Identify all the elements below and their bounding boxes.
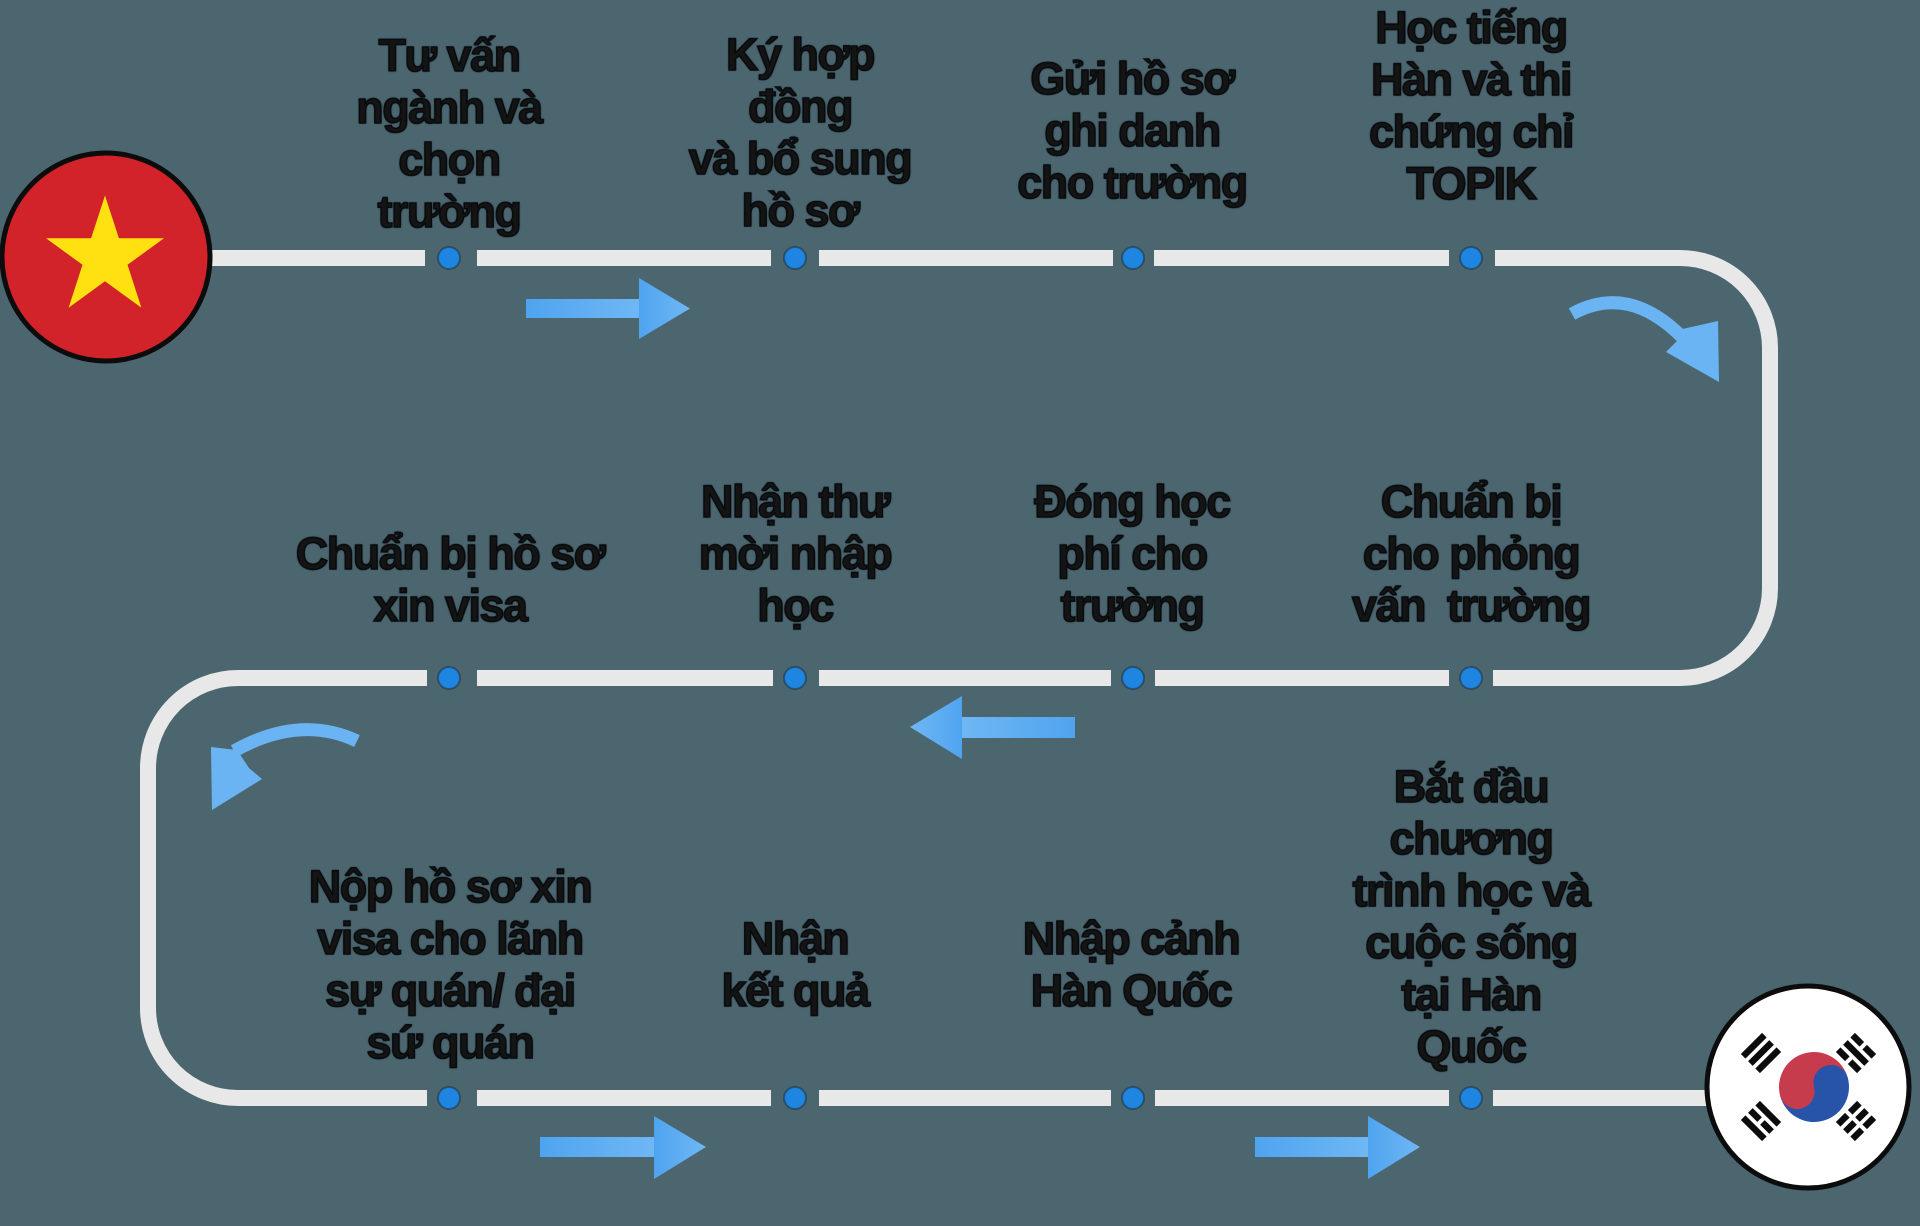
- node dot row3 col4: [1460, 1087, 1482, 1109]
- wire row2 segment B: [477, 670, 773, 686]
- label step 11: Nhap canh Han Quoc: [901, 913, 1361, 1017]
- wire row1 segment C: [819, 250, 1113, 266]
- label step 10: Nhan ket qua: [565, 913, 1025, 1017]
- wire row3 segment E to Korea flag: [1493, 1090, 1707, 1106]
- wire row2 segment D: [1155, 670, 1449, 686]
- trigram Gam (top-right, split solid split): [1836, 1033, 1876, 1073]
- label step 9: Nop ho so xin visa cho lanh su quan/ dai su quan: [220, 861, 680, 1069]
- label step 2: Ky hop dong va bo sung ho so: [570, 29, 1030, 237]
- straight arrow row3 right B: [1255, 1116, 1420, 1179]
- node dot row1 col3: [1122, 247, 1144, 269]
- node dot row1 col4: [1460, 247, 1482, 269]
- wire row1 segment D: [1154, 250, 1449, 266]
- label step 8: Chuan bi ho so xin visa: [220, 528, 680, 632]
- wire row3 segment C: [819, 1090, 1111, 1106]
- trigram Gon (bottom-right, 3 split): [1836, 1101, 1876, 1141]
- label step 6: Dong hoc phi cho truong: [902, 476, 1362, 632]
- node dot row3 col2: [784, 1087, 806, 1109]
- wire right U-curve row1 to row2: [1493, 258, 1770, 678]
- node dot row3 col1: [438, 1087, 460, 1109]
- node dot row3 col3: [1122, 1087, 1144, 1109]
- flag Vietnam (start node): [2, 153, 210, 361]
- trigram Geon (top-left, 3 solid): [1741, 1033, 1781, 1073]
- trigram Ri (bottom-left, solid split solid): [1741, 1101, 1781, 1141]
- node dot row2 col3: [1122, 667, 1144, 689]
- straight arrow row1 right: [526, 278, 690, 339]
- label step 1: Tu van nganh va chon truong: [219, 30, 679, 238]
- label step 12: Bat dau chuong trinh hoc va cuoc song tai Han Quoc: [1241, 761, 1701, 1073]
- node dot row1 col1: [438, 247, 460, 269]
- node dot row1 col2: [784, 247, 806, 269]
- label step 7: Nhan thu moi nhap hoc: [565, 476, 1025, 632]
- node dot row2 col1: [438, 667, 460, 689]
- wire row2 segment C: [819, 670, 1111, 686]
- wire row1 segment A: [211, 250, 425, 266]
- taegeuk: [1771, 1044, 1857, 1130]
- wire row1 segment B: [477, 250, 771, 266]
- flag South Korea (end node): [1707, 986, 1909, 1188]
- label step 3: Gui ho so ghi danh cho truong: [902, 53, 1362, 209]
- node dot row2 col4: [1460, 667, 1482, 689]
- label step 5: Chuan bi cho phong van truong: [1241, 476, 1701, 632]
- curved swoosh arrow left-middle: [211, 730, 357, 810]
- label step 4: Hoc tieng Han va thi chung chi TOPIK: [1241, 2, 1701, 210]
- wire row3 segment B: [477, 1090, 771, 1106]
- straight arrow row2 left: [910, 696, 1075, 759]
- node dot row2 col2: [784, 667, 806, 689]
- wire row3 segment D: [1155, 1090, 1449, 1106]
- straight arrow row3 right A: [540, 1116, 706, 1179]
- wire left U-curve row2 to row3: [148, 678, 427, 1098]
- curved swoosh arrow top-right: [1572, 303, 1719, 382]
